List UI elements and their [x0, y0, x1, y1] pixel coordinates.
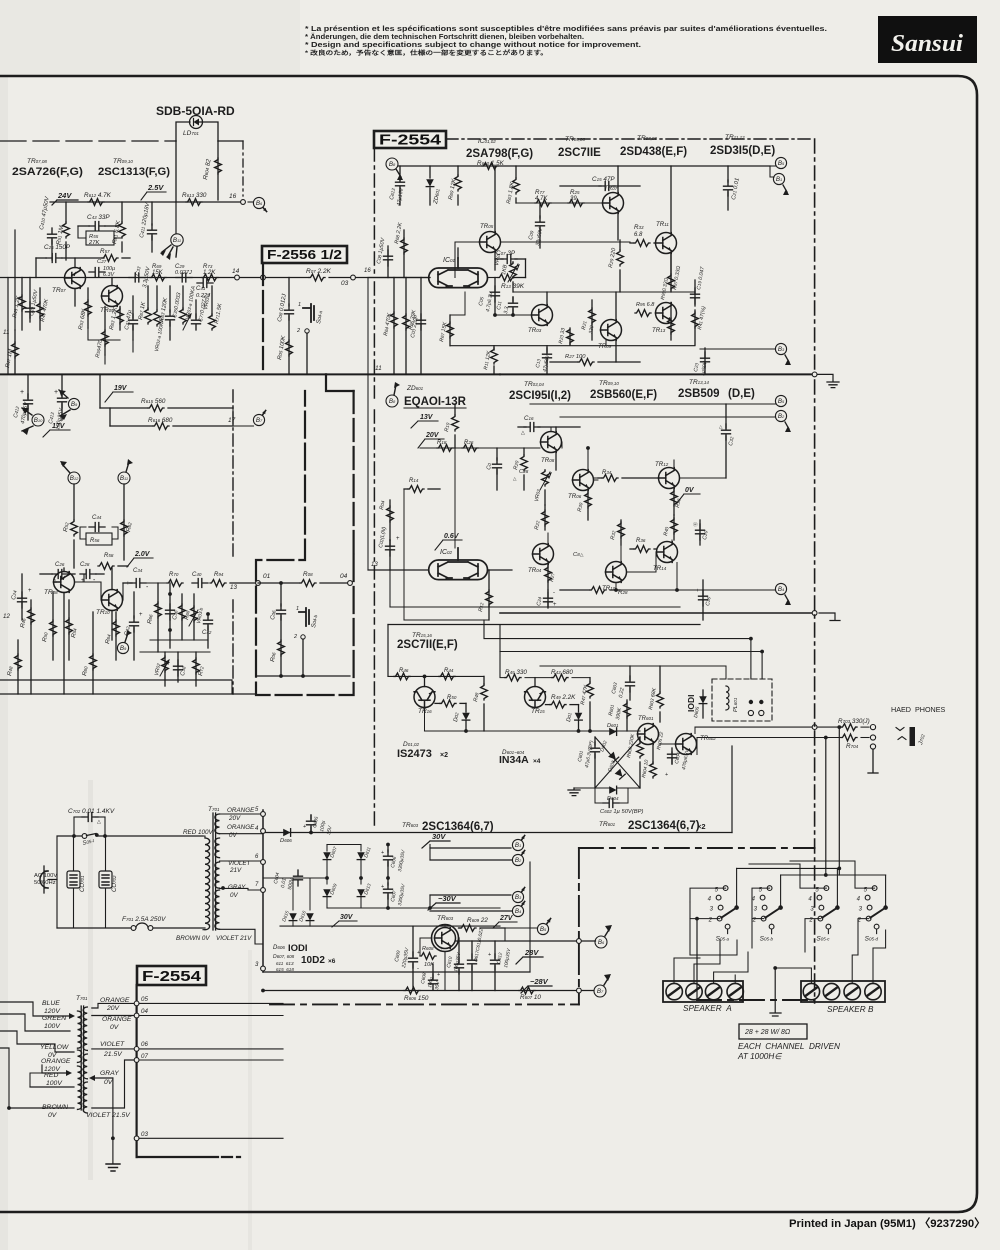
resistor R67 1K [147, 286, 149, 310]
svg-text:B4: B4 [515, 908, 522, 915]
svg-text:0V: 0V [229, 832, 238, 839]
capacitor C19 0.047 [694, 280, 696, 306]
resistor R41 47 [694, 310, 696, 345]
resistor R24 vertical [547, 565, 549, 591]
svg-text:TR09,10: TR09,10 [113, 158, 133, 165]
capacitor C606 3300u35V [387, 845, 389, 853]
svg-text:×4: ×4 [533, 758, 541, 765]
svg-text:TR15: TR15 [531, 708, 545, 715]
capacitor C21 0.01 [727, 166, 729, 182]
svg-text:ORANGE: ORANGE [227, 807, 255, 814]
transistor TR08 [54, 572, 75, 593]
primary feed wires (nested) [0, 1002, 73, 1016]
speaker B feed wires [775, 968, 811, 983]
VR03-a 100KA pot [182, 286, 184, 310]
svg-text:TR12: TR12 [655, 461, 669, 468]
module outline lower half [256, 391, 354, 695]
svg-text:+: + [381, 884, 384, 890]
svg-text:0V: 0V [104, 1079, 114, 1086]
resistor R22 vertical [544, 505, 546, 530]
capacitor C24m [547, 590, 549, 606]
speaker B terminal strip [801, 981, 885, 1002]
svg-text:13: 13 [230, 584, 237, 591]
heavy dash boundary y=1004.4 [270, 1003, 579, 1005]
resistor R613 330 [186, 199, 202, 206]
resistor R32 vertical [620, 520, 622, 545]
svg-text:ORANGE: ORANGE [41, 1058, 71, 1065]
svg-text:Sansui: Sansui [891, 31, 963, 57]
capacitor C10 [496, 448, 498, 460]
capacitor C410 47u50V [48, 228, 57, 244]
svg-text:C07 3P: C07 3P [496, 250, 516, 257]
svg-text:R27 100: R27 100 [565, 354, 586, 360]
LED LD701 [176, 116, 218, 142]
svg-text:B1: B1 [515, 842, 521, 849]
F-2556 1/2 module label box [262, 246, 347, 263]
svg-text:△: △ [719, 424, 723, 429]
svg-text:R95 6.8: R95 6.8 [636, 302, 655, 308]
resistor R11 12K [493, 346, 495, 350]
svg-text:TR603: TR603 [437, 915, 454, 922]
svg-text:10D2: 10D2 [301, 955, 325, 966]
resistor R62 [121, 520, 128, 536]
svg-text:F701 2.5A 250V: F701 2.5A 250V [122, 916, 166, 923]
column R64 470K [393, 278, 395, 375]
svg-text:R57: R57 [100, 248, 110, 255]
plug to circuit wires [48, 836, 82, 880]
wire top rail to LD701 [0, 140, 176, 142]
IC02 dual transistor [429, 548, 488, 580]
svg-text:B10: B10 [34, 417, 43, 424]
svg-text:EQAOI-13R: EQAOI-13R [404, 396, 467, 408]
svg-text:30V: 30V [432, 832, 446, 841]
center ground stem [774, 968, 776, 1012]
capacitor C06 lower [280, 583, 282, 606]
svg-text:B5: B5 [778, 398, 785, 405]
svg-text:+: + [437, 972, 440, 978]
svg-text:VIOLET: VIOLET [100, 1041, 125, 1048]
X-cross diodes D602 D603 [595, 737, 640, 788]
module outline staircase upper [262, 263, 264, 374]
resistor R63 1.8K [515, 166, 517, 178]
resistor R64 [115, 612, 117, 660]
svg-text:2SA798(F,G): 2SA798(F,G) [466, 148, 533, 160]
transistor TR13r [656, 303, 677, 324]
transistor TR09r [601, 320, 622, 341]
svg-text:B9: B9 [120, 645, 127, 652]
svg-text:100V: 100V [46, 1080, 63, 1087]
resistor R63 1.2K [119, 307, 121, 331]
resistor R46 left [30, 600, 32, 694]
svg-text:×2: ×2 [440, 752, 448, 759]
B5m connector [775, 395, 786, 406]
svg-text:TR07,08: TR07,08 [637, 135, 657, 142]
svg-text:12: 12 [3, 613, 10, 620]
resistor R97 0.33 vertical [670, 254, 672, 293]
capacitor C413 100u25V [61, 374, 63, 396]
B9 connector [68, 398, 79, 409]
svg-text:20V: 20V [425, 432, 440, 439]
svg-text:IN34A: IN34A [499, 754, 529, 766]
svg-text:IC01,02: IC01,02 [478, 138, 496, 145]
svg-text:HAED PHONES: HAED PHONES [891, 705, 946, 714]
svg-text:+: + [665, 772, 668, 778]
resistor R66 [157, 583, 159, 652]
TR08/TR10 verticals [63, 568, 65, 572]
svg-text:2.0V: 2.0V [134, 551, 151, 558]
capacitor C612 100u35V [494, 941, 496, 958]
resistor R59 470 [104, 307, 106, 356]
long feedback rails mid-left gap [367, 278, 369, 571]
resistor R21 330 vertical [591, 300, 593, 340]
svg-text:T701: T701 [76, 995, 88, 1002]
svg-text:SPEAKER A: SPEAKER A [683, 1004, 732, 1013]
headphone jack J702 [910, 727, 916, 746]
horizontal y=848 heavy dash [579, 847, 815, 849]
B6p connector [595, 936, 607, 948]
F-2554 top module label box [374, 131, 446, 148]
resistor R69 12K [457, 166, 459, 176]
svg-text:-: - [417, 966, 419, 972]
B8s connector [607, 924, 609, 926]
svg-text:ORANGE: ORANGE [100, 997, 130, 1004]
bridge rectifier diodes [263, 844, 327, 846]
switch S05-d [865, 886, 879, 934]
switch feed wires [737, 867, 840, 869]
svg-text:×2: ×2 [697, 822, 706, 831]
svg-text:×6: ×6 [328, 958, 336, 965]
svg-text:2SC7IIE: 2SC7IIE [558, 147, 601, 159]
top boundary wire [388, 624, 700, 626]
svg-text:611 613: 611 613 [276, 961, 294, 966]
capacitor C20 [699, 520, 701, 545]
transistor TR15 [525, 687, 546, 708]
svg-text:TR13: TR13 [652, 327, 666, 334]
Sansui logo [878, 16, 977, 63]
svg-text:RED 100V: RED 100V [183, 829, 214, 836]
wire bottom protection [574, 787, 609, 789]
resistor R612 4.7K [88, 199, 104, 206]
svg-text:GRAY: GRAY [100, 1070, 119, 1077]
resistor R51 1M [65, 202, 67, 222]
diode D606 [283, 829, 290, 837]
resistor R72 [195, 652, 197, 686]
lamp contacts in box [749, 700, 753, 704]
B5p connector [537, 923, 548, 934]
resistor R61 6.8K [121, 202, 123, 222]
capacitor C604 470u6.3V [671, 752, 673, 764]
wire TR09 emitter connections [615, 341, 617, 363]
transistor TR12m [659, 468, 680, 489]
svg-text:R607 10: R607 10 [520, 994, 541, 1001]
B7p connector [594, 985, 606, 997]
wire row y=731 [425, 730, 641, 732]
svg-text:20V: 20V [106, 1005, 121, 1012]
svg-text:S05-b: S05-b [760, 936, 774, 943]
EQ module bottom boundary [368, 624, 388, 626]
transistor TR08m [541, 432, 562, 453]
svg-text:615 618: 615 618 [276, 967, 294, 972]
B11 connector with arrows [171, 234, 183, 246]
dash-dot boundary x=814.6 lower [814, 380, 816, 1003]
capacitor C09 33u50V [539, 203, 541, 218]
svg-text:13: 13 [371, 562, 378, 568]
T701b primary coil [78, 1011, 82, 1048]
svg-text:R613 330: R613 330 [182, 192, 207, 199]
module boundary dash-dot from label box [446, 138, 812, 140]
switch S05-t [82, 834, 87, 839]
svg-text:VIOLET 21V: VIOLET 21V [216, 935, 252, 942]
bottom bridge wire y=908 [326, 897, 328, 908]
capacitor C26m [702, 580, 704, 620]
resistor R71 1.5K [211, 286, 213, 316]
transistor TR602 [676, 734, 697, 755]
tap wires right [139, 1002, 283, 1004]
transformer core [213, 813, 216, 930]
wire row y=448 [420, 447, 540, 449]
svg-text:2SA726(F,G): 2SA726(F,G) [12, 166, 83, 178]
svg-text:BROWN 0V: BROWN 0V [176, 935, 210, 942]
svg-text:2SC1313(F,G): 2SC1313(F,G) [98, 166, 170, 178]
wire y=666 [540, 665, 726, 667]
svg-text:0V: 0V [48, 1112, 58, 1119]
svg-text:GRAY: GRAY [228, 884, 246, 891]
TR603 connections [444, 925, 446, 927]
F-2554 bottom module label box [137, 966, 206, 985]
svg-text:21V: 21V [229, 867, 242, 874]
svg-text:TR03,04: TR03,04 [524, 381, 544, 388]
svg-text:0.027J: 0.027J [175, 270, 192, 276]
capacitor C609 220u35V [412, 926, 414, 956]
transistor TR11r [656, 233, 677, 254]
svg-text:R49 2.2K: R49 2.2K [551, 694, 576, 701]
resistor R10 vertical [454, 404, 456, 415]
vertical feeds from mid module down [483, 620, 485, 639]
svg-text:2SD438(E,F): 2SD438(E,F) [620, 146, 687, 158]
svg-text:S05-c: S05-c [816, 936, 830, 943]
svg-text:B3: B3 [778, 346, 785, 353]
nodes on x=578.9 [577, 939, 582, 944]
capacitor C38 [177, 652, 179, 682]
wire rail to B11 [175, 202, 177, 233]
svg-text:C16: C16 [524, 415, 534, 422]
svg-text:TR05,06: TR05,06 [565, 136, 585, 143]
svg-text:R612 4.7K: R612 4.7K [84, 192, 112, 199]
cluster connection wires [140, 651, 210, 653]
svg-text:2.5V: 2.5V [147, 183, 164, 192]
diodes D615 D616 [292, 878, 294, 910]
svg-text:2SC7II(E,F): 2SC7II(E,F) [397, 639, 458, 651]
svg-text:R615 560: R615 560 [141, 398, 166, 405]
switch S05-b [760, 886, 774, 934]
svg-text:2SC1364(6,7): 2SC1364(6,7) [628, 820, 700, 832]
svg-text:R08: R08 [303, 571, 313, 578]
svg-text:100V: 100V [44, 1023, 61, 1030]
capacitor C35 0.0033 [169, 286, 171, 312]
B7 connector [253, 414, 264, 425]
svg-text:SPEAKER B: SPEAKER B [827, 1005, 874, 1014]
B12 connector [68, 472, 80, 484]
rail into IC02 [368, 569, 429, 571]
svg-text:17: 17 [228, 417, 236, 424]
svg-text:+: + [396, 536, 400, 542]
speaker A terminal strip [663, 981, 743, 1002]
svg-text:* La présention et les spécifi: * La présention et les spécifications so… [305, 26, 827, 33]
svg-text:* Design and specifications su: * Design and specifications subject to c… [305, 42, 641, 49]
svg-text:S05-d: S05-d [865, 936, 879, 943]
capacitor C23 1u50V [29, 278, 31, 323]
left vertical bus [14, 230, 16, 330]
capacitor C412 470u25V [27, 374, 29, 398]
svg-text:6.8: 6.8 [634, 232, 643, 238]
svg-text:F-2554: F-2554 [379, 133, 441, 149]
capacitor C32 [133, 592, 135, 618]
lower rail inside module [256, 675, 350, 677]
VR02 pot [164, 652, 166, 686]
svg-text:2SD3I5(D,E): 2SD3I5(D,E) [710, 145, 775, 157]
dash-dot boundary x=243 [242, 141, 244, 196]
svg-text:+: + [488, 952, 491, 958]
resistor R05 100K [286, 340, 293, 356]
transistor TR04m [533, 544, 554, 565]
svg-text:TR602: TR602 [700, 735, 716, 742]
transistor TR09 [102, 286, 123, 307]
resistor R12 vertical [488, 570, 490, 620]
svg-text:R25: R25 [570, 189, 580, 196]
bottom rail of left module [0, 693, 256, 695]
switch pivot risers [736, 868, 738, 905]
transistor TR601 [638, 724, 659, 745]
B1t connector [773, 173, 784, 184]
svg-text:R606 150: R606 150 [404, 995, 429, 1002]
svg-text:(D,E): (D,E) [728, 388, 755, 400]
wire into speaker A region [674, 958, 700, 983]
svg-text:+: + [28, 588, 32, 594]
transformer secondary [215, 814, 220, 834]
svg-text:01: 01 [263, 573, 271, 580]
svg-text:R13 39K: R13 39K [501, 283, 525, 290]
svg-text:27V: 27V [499, 915, 514, 922]
wire row y=203 [516, 202, 603, 204]
svg-text:0V: 0V [230, 892, 239, 899]
wire y=345 lower [450, 345, 695, 347]
capacitor C608 100u35V mid [432, 964, 434, 978]
wires below switches [689, 902, 691, 955]
right border area vertical wires x=942/962 [941, 727, 943, 832]
TR603 regulator [435, 928, 456, 949]
svg-text:B5: B5 [540, 926, 547, 933]
transistor TR16 [414, 687, 435, 708]
svg-text:TR14: TR14 [653, 565, 667, 572]
main switch wire to transformer [97, 835, 203, 837]
resistor R63b 120K [156, 286, 158, 310]
svg-text:2: 2 [293, 634, 297, 640]
svg-text:TR603: TR603 [402, 822, 419, 829]
main ground bus 11 [0, 373, 500, 375]
svg-text:120V: 120V [44, 1008, 61, 1015]
wire TR03 collector up [546, 292, 548, 305]
svg-text:TR06: TR06 [568, 493, 582, 500]
resistor R604 10 [652, 746, 654, 765]
svg-text:S05-a: S05-a [716, 936, 730, 943]
capacitor C32m electrolytic [725, 404, 727, 428]
capacitor C02 LIN [389, 540, 391, 570]
svg-text:ORANGE: ORANGE [102, 1016, 132, 1023]
transistor TR07r [603, 193, 624, 214]
svg-text:16: 16 [364, 268, 371, 274]
svg-text:B1: B1 [776, 176, 782, 183]
svg-text:50/60Hz: 50/60Hz [34, 880, 56, 886]
jack contact 3 [870, 744, 875, 749]
svg-text:F-2554: F-2554 [142, 968, 202, 985]
capacitor C613 47u16V [399, 166, 401, 180]
capacitor C77 0.027J [195, 300, 197, 318]
svg-text:17V: 17V [52, 423, 66, 430]
resistor R67 15K [449, 315, 451, 346]
svg-text:B11: B11 [173, 237, 181, 244]
capacitor C603 0.22 [629, 666, 631, 680]
verticals into lamp box [750, 639, 752, 679]
svg-text:03: 03 [141, 1131, 148, 1138]
svg-text:LD701: LD701 [183, 130, 199, 137]
capacitor C08 0.012J on S04-a [288, 278, 290, 307]
svg-text:R616 680: R616 680 [148, 417, 173, 424]
B2m connector [775, 410, 786, 421]
B9b connector [117, 642, 128, 653]
svg-text:27K: 27K [88, 240, 100, 246]
svg-text:TR08: TR08 [44, 589, 58, 596]
svg-text:△: △ [513, 476, 517, 481]
capacitor C31 47u6.3V [132, 296, 134, 318]
F-2554 box tail lines [136, 985, 138, 1157]
svg-text:+: + [696, 588, 699, 594]
B6 connector [253, 197, 264, 208]
svg-text:IC01: IC01 [443, 257, 456, 264]
PL601 dashed box with lamp [712, 679, 772, 721]
capacitor C411 220u18V [151, 202, 153, 225]
mid bridge wire y=878 [263, 877, 327, 879]
resistor R60 [92, 612, 94, 694]
resistor R95 6.8 [635, 310, 651, 317]
svg-text:VIOLET 21.5V: VIOLET 21.5V [86, 1112, 131, 1119]
rails to B3/B4 [430, 894, 511, 896]
B-circle right of switches [607, 1047, 609, 1049]
verticals down to speaker switches [838, 727, 840, 875]
svg-text:20V: 20V [228, 815, 241, 822]
resistor R40 vertical [673, 515, 675, 540]
svg-text:+: + [139, 612, 143, 618]
svg-text:19V: 19V [114, 385, 128, 392]
top rail y=166 [398, 165, 770, 167]
transistor TR05r [480, 232, 501, 253]
svg-text:R33: R33 [634, 224, 644, 231]
capacitor C602 1u50V(BP) [603, 799, 619, 808]
svg-text:TR16: TR16 [418, 708, 432, 715]
svg-text:2SB560(E,F): 2SB560(E,F) [590, 389, 657, 401]
28+28W box [739, 1024, 807, 1039]
svg-text:07: 07 [141, 1053, 148, 1060]
capacitor C13 47u50V [546, 346, 548, 352]
resistor R54 [68, 600, 70, 660]
svg-text:B8: B8 [389, 398, 396, 405]
capacitor C610 100u35V [458, 938, 460, 962]
svg-text:B6: B6 [598, 939, 605, 946]
section dash-dot divider x=233 lower [232, 390, 234, 560]
resistor R06 lower [278, 640, 285, 656]
svg-text:AT 1000H∈: AT 1000H∈ [737, 1052, 782, 1061]
svg-text:+: + [381, 850, 384, 856]
node dots headphone rails [837, 725, 841, 729]
